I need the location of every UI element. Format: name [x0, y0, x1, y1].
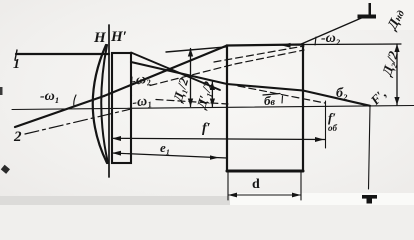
lens L1 left arc: [93, 45, 107, 163]
arrow D1/2 down: [188, 99, 193, 107]
field stop mark (inverted T): [369, 3, 372, 16]
wire: chief ray 2 ascending to block corner: [104, 46, 227, 97]
arrow D1'/2 up: [210, 82, 215, 90]
wire: dashed undisplaced chief ray in block (lower twin): [235, 50, 304, 64]
glass block rectangle: [227, 45, 303, 172]
arrow F D2/2 up: [394, 44, 399, 52]
angle tick -w2 top right: [315, 37, 316, 45]
sigma-bar overline: [263, 94, 280, 96]
angle tick -w1 left: [74, 95, 76, 107]
wire: ray 1 end tick: [15, 50, 17, 60]
svg-text:d: d: [252, 177, 260, 192]
wire: dash-dot auxiliary ray lower left: [25, 109, 131, 134]
arrow D1/2 up: [188, 49, 193, 57]
svg-text:1: 1: [13, 57, 20, 72]
svg-text:б₂: б₂: [336, 86, 348, 101]
tick sigma dashed: [281, 96, 284, 103]
svg-text:-ω₁: -ω₁: [40, 89, 60, 104]
svg-text:об: об: [328, 123, 338, 133]
wire: dashed undisplaced chief ray in block (upper): [214, 46, 304, 62]
wire: dashed undisplaced converging ray to f'ob: [238, 86, 325, 103]
arrow F D2/2 down: [394, 97, 399, 105]
arrow e1 left: [112, 151, 121, 156]
dimension D1/2 vertical double arrow: [190, 49, 192, 107]
arrowhead on top line pointing left: [281, 43, 291, 48]
dimension F,D2/2 vertical double arrow: [396, 44, 398, 105]
wire: exit ray to field stop mark: [299, 16, 366, 45]
wire: dashed ray lens to block: [156, 100, 228, 105]
arrowheads: [112, 3, 400, 204]
svg-text:-ω₁: -ω₁: [131, 93, 153, 111]
wire: dashed short under omega2: [150, 64, 235, 86]
dimension d extension lines: [227, 172, 229, 200]
lens plate rectangle: [112, 53, 131, 163]
arrow e1 right: [210, 155, 219, 159]
svg-text:e₁: e₁: [160, 140, 170, 155]
svg-text:-ω₂: -ω₂: [321, 31, 341, 46]
wire: ray 1 incoming: [16, 53, 109, 55]
arrow d right: [292, 193, 301, 198]
arrow d left: [228, 193, 237, 198]
arrow f' right: [315, 137, 324, 142]
svg-text:H: H: [93, 30, 107, 46]
image plane T mark: [362, 195, 377, 199]
wire: top extension line to dimension: [303, 43, 401, 46]
dimension e1 line: [112, 153, 227, 158]
svg-text:f′: f′: [202, 121, 211, 136]
principal plane H vertical line: [108, 25, 110, 177]
dimension d line: [228, 194, 301, 196]
dimension f' end tick: [325, 101, 327, 148]
wire: ray 2 incoming: [15, 96, 104, 127]
lens L1 right arc: [101, 45, 108, 163]
angle tick -w2 right of lens: [131, 77, 134, 84]
stray scan mark bottom left: [1, 165, 10, 174]
focal plane vertical line: [369, 106, 371, 189]
wire: optical axis: [12, 106, 414, 110]
angle tick -w1 right of lens: [130, 95, 133, 105]
svg-text:2: 2: [13, 129, 22, 145]
wire: reference line at ray1 height: [166, 47, 227, 52]
arrow D1'/2 down: [210, 99, 215, 107]
svg-text:H′: H′: [110, 29, 127, 45]
arrow f' left: [112, 136, 121, 141]
dimension f' line: [112, 138, 325, 139]
wire: refracted ray from plate corner: [131, 53, 220, 91]
glass block bottom edge thick: [227, 170, 303, 173]
wire: main converging ray through block to F': [131, 62, 370, 106]
dimension D1'/2 vertical double arrow: [211, 82, 213, 107]
